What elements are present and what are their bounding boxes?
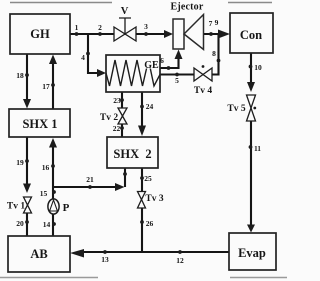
svg-text:6: 6 (160, 56, 164, 65)
svg-text:AB: AB (30, 247, 47, 261)
svg-text:GE: GE (144, 60, 159, 71)
svg-text:Tv 3: Tv 3 (145, 194, 163, 204)
svg-text:21: 21 (86, 175, 94, 184)
svg-text:Con: Con (240, 28, 262, 42)
svg-text:25: 25 (144, 174, 152, 183)
svg-text:13: 13 (101, 255, 109, 264)
svg-text:Tv 2: Tv 2 (100, 113, 118, 123)
svg-text:11: 11 (254, 144, 261, 153)
svg-text:Tv 4: Tv 4 (194, 86, 212, 96)
svg-text:26: 26 (146, 219, 154, 228)
svg-text:3: 3 (144, 22, 148, 31)
svg-text:10: 10 (254, 63, 262, 72)
svg-text:Tv 5: Tv 5 (227, 104, 245, 114)
svg-text:SHX 2: SHX 2 (113, 147, 151, 161)
svg-text:5: 5 (175, 76, 179, 85)
svg-text:Tv 1: Tv 1 (7, 202, 25, 212)
svg-text:2: 2 (98, 23, 102, 32)
svg-text:20: 20 (16, 219, 24, 228)
svg-text:Ejector: Ejector (170, 2, 203, 13)
svg-text:17: 17 (42, 82, 50, 91)
svg-text:16: 16 (42, 163, 50, 172)
svg-text:Evap: Evap (238, 246, 266, 260)
svg-text:19: 19 (16, 158, 24, 167)
svg-text:GH: GH (30, 27, 50, 41)
svg-text:23: 23 (113, 96, 121, 105)
svg-text:24: 24 (146, 102, 154, 111)
svg-text:4: 4 (81, 53, 85, 62)
svg-text:14: 14 (43, 220, 51, 229)
svg-text:15: 15 (40, 189, 48, 198)
svg-text:12: 12 (176, 256, 184, 265)
svg-text:1: 1 (75, 23, 79, 32)
svg-text:8: 8 (212, 49, 216, 58)
svg-text:18: 18 (16, 71, 24, 80)
svg-text:P: P (63, 202, 70, 214)
svg-text:SHX 1: SHX 1 (22, 117, 57, 131)
svg-text:22: 22 (113, 124, 121, 133)
svg-text:V: V (121, 6, 129, 17)
svg-text:9: 9 (215, 18, 219, 27)
svg-text:7: 7 (209, 19, 213, 28)
